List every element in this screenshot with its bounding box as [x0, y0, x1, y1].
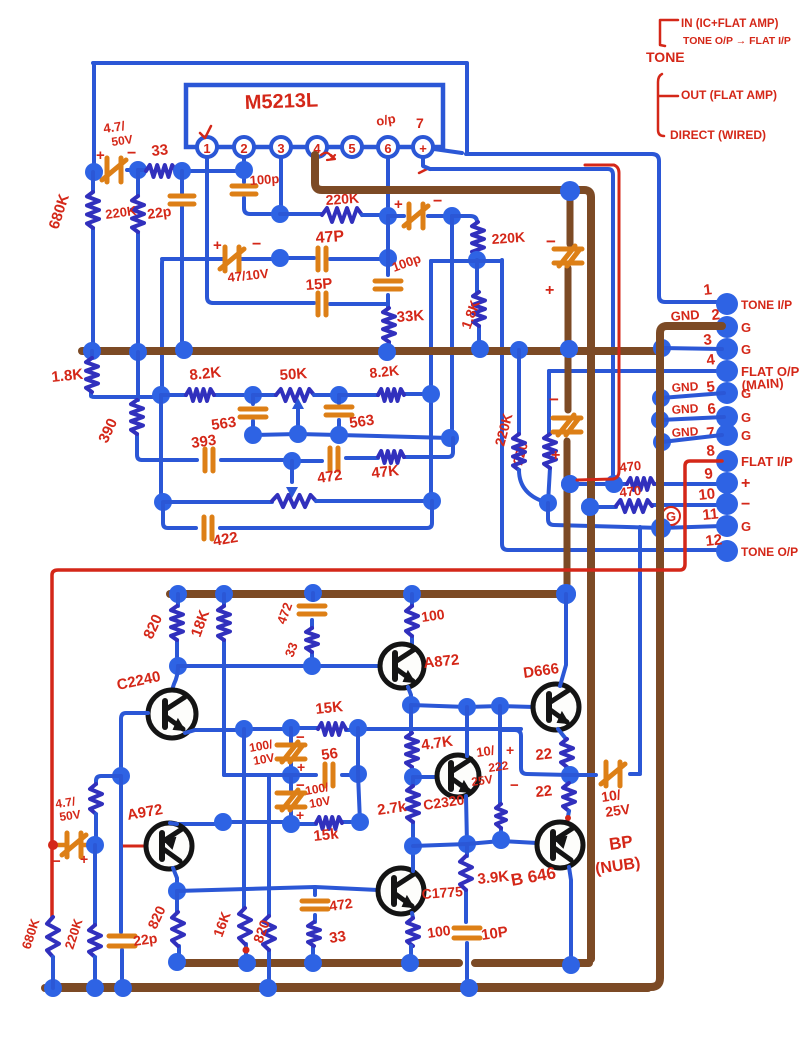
- svg-text:15P: 15P: [305, 275, 333, 294]
- node rail1 100: [403, 585, 421, 603]
- resistor 47K: [378, 451, 404, 463]
- wire D666 emitter to node: [558, 729, 570, 775]
- wire C2240 base: [121, 713, 148, 776]
- svg-text:TONE: TONE: [646, 49, 685, 65]
- node B646 rail2: [562, 956, 580, 974]
- resistor 820 (A972): [177, 891, 179, 958]
- svg-text:8: 8: [706, 442, 716, 460]
- svg-text:GND: GND: [671, 379, 699, 395]
- resistor 220K column (left): [136, 170, 140, 352]
- node row730 right: [349, 719, 367, 737]
- resistor 15K (row1): [318, 723, 346, 735]
- svg-text:G: G: [741, 519, 751, 534]
- svg-text:100: 100: [426, 922, 452, 941]
- legend bracket 2: [658, 74, 678, 136]
- red dot 16K: [243, 947, 250, 954]
- node gnd col p5: [652, 389, 670, 407]
- electrolytic 47/10V: [220, 247, 244, 271]
- electrolytic 4.7/50V (top left): [102, 158, 126, 182]
- node rail3 10P: [460, 979, 478, 997]
- wire 220K col from rail: [517, 350, 521, 434]
- capacitor 100p (pin6): [375, 281, 401, 289]
- node rail 33K: [378, 343, 396, 361]
- svg-text:1.8K: 1.8K: [51, 366, 84, 386]
- wire C1775 collector: [411, 846, 415, 871]
- svg-text:−: −: [510, 777, 519, 794]
- electrolytic cap (pin6 node): [404, 204, 428, 228]
- wire pin7 down stub to tone feed: [423, 158, 430, 169]
- wire 22p column: [180, 171, 184, 350]
- resistor 1.8K (right): [473, 292, 485, 326]
- svg-text:−: −: [296, 729, 305, 746]
- node gnd col p11: [651, 518, 671, 538]
- wire 470 row (pin10): [590, 505, 722, 507]
- svg-text:OUT (FLAT AMP): OUT (FLAT AMP): [681, 88, 777, 102]
- brown GND column with pin2 arm: [48, 326, 722, 987]
- svg-text:3: 3: [703, 331, 713, 349]
- electrolytic V+ branch upper: [554, 246, 582, 266]
- resistor 220: [544, 434, 556, 468]
- electrolytic 4.7/50V bottom: [62, 833, 86, 857]
- svg-text:G: G: [741, 428, 751, 443]
- wire C1775 emitter: [412, 913, 413, 918]
- wire 100p column: [244, 170, 280, 214]
- node 1.8K top: [468, 251, 486, 269]
- capacitor 56: [325, 764, 333, 786]
- resistor 220K (vertical right): [472, 222, 484, 256]
- node rail3 680K: [44, 979, 62, 997]
- wire 47/10V row: [162, 258, 388, 259]
- wire pin6 slant: [660, 417, 724, 420]
- IC pin 6 circle: [378, 137, 398, 157]
- wire 220K row right segment: [362, 213, 388, 217]
- wire input cap left lead: [94, 170, 138, 171]
- brown wire pin4 to V+ distribution: [315, 155, 591, 959]
- svg-text:+: +: [506, 742, 514, 758]
- svg-text:IN (IC+FLAT AMP): IN (IC+FLAT AMP): [681, 18, 779, 30]
- brown rail mid (lower V+): [170, 590, 565, 598]
- svg-text:563: 563: [348, 412, 375, 432]
- node rail2 16K: [238, 954, 256, 972]
- wire pin1 down: [207, 157, 213, 303]
- transistor B646: [537, 822, 583, 868]
- wire 33 row: [138, 170, 182, 171]
- wire pin7 slant: [662, 435, 722, 442]
- svg-text:+: +: [551, 447, 560, 464]
- wire pin7 node to TONE I/P pin 1: [466, 154, 722, 302]
- node pin6/220K junction: [379, 207, 397, 225]
- svg-text:−: −: [546, 232, 556, 251]
- red check mark above pin 1: [200, 126, 211, 138]
- red node bl: [48, 840, 58, 850]
- svg-text:+: +: [213, 237, 222, 254]
- wire node down to 47K row: [450, 216, 454, 438]
- node row1 b: [330, 386, 348, 404]
- svg-text:25V: 25V: [470, 772, 493, 789]
- svg-text:2: 2: [240, 141, 247, 156]
- wire pin5 slant: [661, 393, 724, 398]
- node rail 22p: [175, 341, 193, 359]
- brown rail bottom-2 (upper): [177, 959, 589, 967]
- wire pin6 down: [386, 157, 390, 216]
- svg-text:6: 6: [384, 141, 391, 156]
- svg-text:6: 6: [707, 400, 717, 418]
- wire C2320 base: [413, 775, 437, 779]
- resistor 18K: [222, 594, 226, 775]
- wire x502 down to pin 12: [502, 260, 722, 550]
- svg-text:+: +: [80, 851, 88, 867]
- svg-text:15k: 15k: [313, 825, 340, 845]
- wire 220K bottom lead: [93, 957, 97, 988]
- svg-text:DIRECT (WIRED): DIRECT (WIRED): [670, 128, 766, 142]
- resistor 470 (pin9): [627, 478, 654, 490]
- wire to electrolytic 10u: [388, 214, 452, 218]
- svg-text:33K: 33K: [396, 307, 425, 326]
- svg-text:472: 472: [316, 467, 343, 487]
- wire node right to 220K vert: [452, 216, 477, 222]
- resistor 100 (C1775): [407, 918, 419, 946]
- svg-text:7: 7: [416, 115, 424, 131]
- capacitor 472 (mid): [330, 448, 338, 470]
- node 222 bottom: [492, 831, 510, 849]
- brown rail bottom-3 (lower): [45, 984, 648, 992]
- resistor 8.2K (left): [186, 389, 214, 401]
- wire row 845: [413, 841, 537, 846]
- node rail3 220K: [86, 979, 104, 997]
- svg-text:8.2K: 8.2K: [189, 364, 222, 384]
- node rail browncol: [560, 340, 578, 358]
- svg-text:+: +: [394, 196, 403, 213]
- node 563 row left: [244, 426, 262, 444]
- capacitor 22p (top): [170, 196, 194, 204]
- transistor C2240: [148, 690, 196, 738]
- node row1 right: [422, 385, 440, 403]
- svg-text:15K: 15K: [315, 698, 344, 718]
- node cap out: [129, 161, 147, 179]
- svg-text:3.9K: 3.9K: [477, 868, 510, 888]
- wire 470 row (pin9): [570, 482, 722, 486]
- svg-text:−: −: [127, 145, 136, 162]
- svg-text:33: 33: [328, 928, 347, 947]
- resistor 4.7K: [406, 733, 418, 767]
- svg-text:56: 56: [320, 745, 339, 764]
- resistor 470 (pin10): [616, 500, 652, 512]
- connector pin 6 dot: [716, 406, 738, 428]
- node cap bl: [86, 836, 104, 854]
- wire x431 down: [429, 261, 433, 501]
- resistor-like 222 cap squiggle: [496, 804, 506, 828]
- capacitor 563 (right): [337, 395, 341, 435]
- svg-text:22p: 22p: [146, 203, 172, 222]
- wire 220K bottom-left corner: [96, 776, 121, 784]
- node pin10 brown tap: [581, 498, 599, 516]
- IC pin 7 circle: [413, 137, 433, 157]
- wire pin4 row: [549, 369, 722, 373]
- node rail2 100: [401, 954, 419, 972]
- node input: [85, 163, 103, 181]
- svg-text:−: −: [433, 193, 442, 210]
- svg-text:TONE O/P → FLAT I/P: TONE O/P → FLAT I/P: [683, 35, 791, 47]
- capacitor 22p bottom: [109, 936, 135, 946]
- transistor A972: [146, 823, 192, 869]
- brown V+ branch column (caps): [567, 192, 570, 592]
- wire tone feed to 470 row (pin9 node): [430, 169, 613, 484]
- wire to pin11 node: [548, 503, 722, 528]
- transistor C2320: [437, 755, 479, 797]
- resistor 33 (top): [146, 165, 176, 177]
- resistor 390: [137, 352, 196, 460]
- node pin2 cap top: [235, 161, 253, 179]
- resistor 680K column: [91, 172, 95, 351]
- svg-text:220K: 220K: [491, 229, 526, 247]
- svg-text:472: 472: [328, 895, 354, 914]
- node rail1 18K: [215, 585, 233, 603]
- svg-text:10: 10: [698, 485, 716, 504]
- node pin3 junction: [271, 205, 289, 223]
- wire 4.7K column: [411, 705, 412, 777]
- node rail1 brown col: [556, 584, 576, 604]
- wire 10P bottom: [465, 943, 469, 988]
- node rail2 33: [304, 954, 322, 972]
- wire 15p row: [213, 303, 388, 304]
- wire 33K column: [388, 302, 389, 352]
- wire B646 emitter: [569, 867, 571, 966]
- wire 393 row: [142, 438, 453, 461]
- node base row 472: [303, 657, 321, 675]
- node pot2 left: [154, 493, 172, 511]
- svg-text:3: 3: [277, 141, 284, 156]
- electrolytic 100/10V upper: [289, 728, 293, 775]
- wire base row A872: [178, 664, 380, 668]
- node rail 1.8K: [471, 340, 489, 358]
- transistor C1775: [378, 868, 424, 914]
- node row706 a: [458, 698, 476, 716]
- wire node row: [431, 259, 502, 263]
- wire 220K bl to cap node: [94, 814, 98, 845]
- capacitor 100p (pin2): [232, 186, 256, 194]
- node row730 16K: [235, 720, 253, 738]
- node 22 mid: [561, 766, 579, 784]
- svg-text:GND: GND: [670, 307, 700, 324]
- connector pin 5 dot: [716, 382, 738, 404]
- electrolytic 100/10V lower: [289, 775, 293, 824]
- resistor 33 (top col): [310, 652, 314, 666]
- svg-text:GND: GND: [671, 401, 699, 417]
- svg-text:470: 470: [619, 458, 642, 475]
- svg-text:2: 2: [711, 306, 721, 324]
- connector pin 9 dot: [716, 472, 738, 494]
- node rail 680K: [83, 342, 101, 360]
- connector pin 10 dot: [716, 493, 738, 515]
- wire 22 to B646: [567, 811, 569, 822]
- node gnd col p6: [651, 411, 669, 429]
- node rail3 820: [259, 979, 277, 997]
- wire A872 collector down: [408, 687, 411, 704]
- node A872 collector: [402, 696, 420, 714]
- node row823 right: [351, 813, 369, 831]
- wire x161 corner down: [162, 259, 163, 395]
- wire row775: [224, 773, 358, 777]
- connector pin 7 dot: [716, 424, 738, 446]
- connector pin 3 dot: [716, 338, 738, 360]
- capacitor 472 (top col): [312, 593, 313, 628]
- node row706 b: [491, 697, 509, 715]
- transistor A872: [380, 644, 424, 688]
- node rail2 820: [168, 953, 186, 971]
- wire C2240 emitter to row1: [185, 730, 244, 733]
- electrolytic V+ branch lower: [553, 415, 581, 435]
- node rail 220Kv: [510, 341, 528, 359]
- node 47p right: [379, 249, 397, 267]
- wire row823: [177, 822, 360, 824]
- resistor 220K (row): [322, 208, 362, 222]
- node brown corner top: [560, 181, 580, 201]
- wire C2240 collector: [172, 666, 178, 690]
- node row730 cap: [282, 719, 300, 737]
- connector pin 4 dot: [716, 360, 738, 382]
- node 563 row wiper: [289, 425, 307, 443]
- svg-text:8.2K: 8.2K: [369, 362, 400, 381]
- svg-text:G: G: [741, 320, 751, 335]
- resistor 220K (bl): [90, 784, 102, 814]
- svg-text:33: 33: [151, 141, 169, 160]
- resistor 220K (bottom): [89, 925, 101, 957]
- node row775 right: [349, 765, 367, 783]
- capacitor 472 (bottom): [313, 887, 317, 922]
- svg-text:9: 9: [704, 465, 714, 483]
- svg-text:50K: 50K: [279, 365, 308, 384]
- node rail 220K: [129, 343, 147, 361]
- IC pin 2 circle: [234, 137, 254, 157]
- node row823 cap: [282, 815, 300, 833]
- wire 422 row: [163, 501, 432, 528]
- wire 1.8K column: [477, 260, 479, 349]
- wire 22p bottom col: [121, 846, 122, 988]
- resistor 820 (top): [177, 594, 178, 666]
- svg-text:47K: 47K: [371, 462, 400, 482]
- wire A972 top to row823: [170, 823, 177, 824]
- wire x95 down: [93, 845, 97, 925]
- connector pin 12 dot: [716, 540, 738, 562]
- red wire tone parallel: [577, 165, 619, 480]
- svg-text:+: +: [741, 475, 750, 492]
- svg-text:22p: 22p: [132, 930, 158, 949]
- svg-text:1: 1: [203, 141, 210, 156]
- wire C2320 emitter: [466, 796, 467, 844]
- node 3.9K top: [458, 835, 476, 853]
- red supply wire (pin8 FLAT I/P loop): [52, 461, 722, 917]
- resistor 16K: [244, 729, 246, 963]
- node electrolytic right: [443, 207, 461, 225]
- svg-text:−: −: [741, 496, 750, 513]
- wire row 706: [411, 705, 534, 707]
- svg-text:−: −: [549, 390, 559, 409]
- resistor 100 (A872): [410, 594, 414, 645]
- svg-text:BP: BP: [608, 832, 634, 854]
- node row1 left: [152, 386, 170, 404]
- resistor 3.9K: [466, 844, 467, 922]
- node C2240 base col: [112, 767, 130, 785]
- svg-text:G: G: [741, 342, 751, 357]
- svg-text:5: 5: [348, 141, 355, 156]
- wire pin2 down to node: [242, 157, 246, 170]
- node base row left: [169, 657, 187, 675]
- wire D666 collector: [560, 594, 566, 686]
- resistor 15k (row3): [316, 817, 342, 829]
- node row775 cap: [282, 766, 300, 784]
- pot2 body: [163, 500, 272, 504]
- wire 220 column: [548, 371, 550, 503]
- capacitor 563 (left): [251, 395, 255, 435]
- red curl at pin 4: [321, 153, 335, 160]
- wire x640 pin11 row to lower section: [638, 527, 642, 772]
- capacitor 47P: [318, 248, 326, 270]
- IC pin 4 circle: [307, 137, 327, 157]
- node rail1 472: [304, 584, 322, 602]
- wire 222 column: [500, 706, 501, 838]
- red tick under pin7: [419, 169, 427, 173]
- svg-text:+: +: [419, 141, 427, 156]
- svg-text:22: 22: [535, 782, 553, 801]
- node 563 row right: [330, 426, 348, 444]
- wire x121 down to A972 base region: [119, 776, 123, 846]
- wire C2320 collector: [465, 707, 469, 756]
- wire A972 bottom: [173, 868, 177, 891]
- svg-text:22: 22: [535, 745, 553, 764]
- wire row1 8.2K right: [339, 394, 431, 395]
- svg-text:100p: 100p: [249, 171, 280, 188]
- node gnd col p7: [653, 433, 671, 451]
- svg-text:+: +: [96, 147, 105, 164]
- svg-text:393: 393: [190, 432, 217, 452]
- wire 220K row left segment: [280, 212, 322, 216]
- red dot B646 collector: [565, 815, 571, 821]
- resistor 33 (bottom): [311, 946, 315, 963]
- resistor 22 (upper): [561, 739, 573, 767]
- wire pin3 down: [279, 157, 283, 214]
- node row1 a: [244, 386, 262, 404]
- electrolytic 10/25V (output): [570, 774, 640, 775]
- pot2 wiper arrow: [290, 461, 294, 482]
- svg-text:C1775: C1775: [421, 883, 463, 902]
- node pin10 brown tap (over brown): [581, 498, 599, 516]
- wire left column top: [92, 63, 96, 171]
- legend bracket 1: [660, 20, 678, 46]
- capacitor 393: [205, 449, 213, 471]
- resistor 8.2K (right): [378, 389, 404, 401]
- wire x360 link rows: [358, 728, 360, 822]
- node rail1 820: [169, 585, 187, 603]
- capacitor 15P: [318, 293, 326, 315]
- resistor 1.8K (left): [91, 351, 161, 397]
- IC pin 1 circle: [197, 137, 217, 157]
- transistor D666: [533, 684, 579, 730]
- node pin9 brown tap (over brown): [561, 475, 579, 493]
- connector pin 11 dot: [716, 515, 738, 537]
- wire row730 long: [195, 728, 521, 730]
- capacitor 422: [204, 517, 212, 539]
- red wire A972 base: [122, 845, 147, 848]
- wire 33-ohm row node to node: [182, 169, 244, 173]
- resistor 2.7K: [411, 777, 415, 846]
- wire top rail from input cap to IC right side: [93, 63, 467, 152]
- IC U1 M5213L outline: [186, 85, 443, 147]
- svg-text:12: 12: [705, 531, 723, 550]
- node 220 junction: [539, 494, 557, 512]
- wire pin6 node to 100p: [386, 216, 390, 302]
- resistor 820 (x269): [267, 775, 271, 988]
- node 47K row corner: [441, 429, 459, 447]
